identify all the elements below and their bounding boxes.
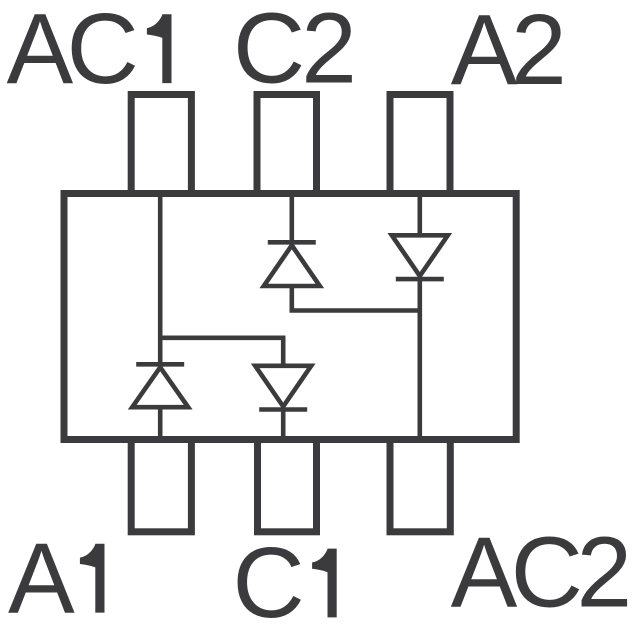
svg-text:A2: A2 (451, 0, 562, 106)
svg-text:C: C (233, 527, 305, 639)
wire pin C2 down to diode D1 cathode (289, 195, 294, 242)
svg-text:A: A (8, 523, 75, 635)
pin 6 AC2 (bottom right lead) (390, 440, 450, 532)
svg-text:AC: AC (7, 0, 136, 105)
wire AC1 node: pin AC1 down to diode D3 cathode (158, 195, 163, 364)
pin 4 A1 (bottom left lead) (131, 440, 191, 532)
pin 2 C2 (top middle lead) (257, 95, 317, 194)
wire D2 cathode down to pin AC2 (417, 279, 422, 441)
package body outline (64, 194, 516, 440)
pin 1 AC1 (top left lead) (131, 95, 191, 194)
diode D3 (lower left, anode down to A1, cathode up to AC1) (132, 364, 188, 407)
wire pin A2 down to diode D2 anode (417, 195, 422, 235)
pin label AC1 (7, 0, 172, 105)
diode D1 (upper left, anode down, cathode up to C2) (264, 242, 320, 286)
wire D4 cathode down to pin C1 (281, 410, 286, 442)
wire D3 anode to pin A1 (158, 407, 163, 441)
pin 3 A2 (top right lead) (390, 95, 450, 194)
svg-text:AC2: AC2 (451, 516, 628, 628)
wire AC1 net branch: left wire right to diode D4 anode (160, 338, 283, 366)
wire D1 anode down then right to A2 net (292, 286, 420, 311)
diode D4 (lower middle, anode up, cathode down to C1) (255, 366, 311, 410)
diode D2 (upper right, anode up to A2, cathode down) (392, 235, 448, 279)
svg-text:C2: C2 (233, 0, 353, 104)
pin label C1 (233, 527, 337, 639)
pin 5 C1 (bottom middle lead) (258, 440, 317, 532)
pin label A1 (8, 523, 105, 635)
